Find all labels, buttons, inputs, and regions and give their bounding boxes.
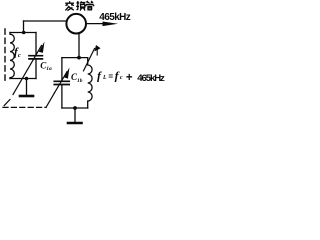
capacitor C1a top lead <box>35 33 37 55</box>
svg-text:c: c <box>120 75 123 81</box>
ground (middle) stub <box>74 108 76 122</box>
node A junction dot (left tank top) <box>22 31 26 35</box>
capacitor C1a plates <box>29 56 42 59</box>
svg-text:C1a: C1a <box>40 60 52 72</box>
inductor fc (antenna coil) <box>10 33 14 79</box>
wire: oscillator tank top rail <box>62 57 88 59</box>
label 変換管 (converter tube) : hand-drawn kanji strokes <box>65 1 93 11</box>
svg-text:=: = <box>108 72 113 81</box>
ground (left) stub <box>26 79 28 95</box>
wire: left tank bottom rail <box>10 78 36 80</box>
ground (middle) bar <box>68 122 82 125</box>
svg-text:465kHz: 465kHz <box>137 73 165 84</box>
arrow through C1a (variable) <box>13 46 42 95</box>
svg-text:f: f <box>115 68 120 82</box>
kanji 変 <box>65 1 74 10</box>
tube bottom lead <box>78 33 80 57</box>
node junction dot (tank top) <box>77 56 81 60</box>
arrow through fL (adjustable core) <box>84 49 95 71</box>
svg-text:465kHz: 465kHz <box>99 12 131 23</box>
gang link dashes (diagonal from C1a arrow) <box>4 100 10 106</box>
capacitor C1b plates <box>54 81 69 84</box>
wire: oscillator tank bottom rail <box>62 107 88 109</box>
svg-text:C1b: C1b <box>71 72 83 84</box>
capacitor C1a bottom lead <box>35 60 37 79</box>
dashed core line of fc coil <box>4 29 6 81</box>
node: left ground junction dot <box>25 77 29 81</box>
wire: vertical drop from top wire to tank-top node <box>23 21 25 33</box>
gang link diagonal up to C1b arrow <box>46 93 55 108</box>
wire: tube output to IF arrow <box>86 23 104 25</box>
svg-text:f: f <box>97 68 102 82</box>
inductor fL (oscillator coil) <box>88 58 92 108</box>
capacitor C1b bottom lead <box>61 85 63 108</box>
gang link dashed horizontal <box>3 106 46 108</box>
ground (left) bar <box>20 95 33 98</box>
converter tube circle U1 <box>66 14 86 34</box>
capacitor C1b top lead <box>61 58 63 81</box>
kanji 管 <box>86 1 94 10</box>
svg-text:+: + <box>126 72 133 84</box>
IF output arrowhead <box>103 22 119 27</box>
arrow through C1b (variable) <box>55 72 68 93</box>
wire: top horizontal from left tank to tube <box>24 20 67 22</box>
svg-text:fc: fc <box>14 46 21 59</box>
svg-text:L: L <box>102 75 107 81</box>
kanji 換 <box>76 1 85 11</box>
wire: left tank top rail <box>10 32 36 34</box>
node: middle ground junction dot <box>73 106 77 110</box>
